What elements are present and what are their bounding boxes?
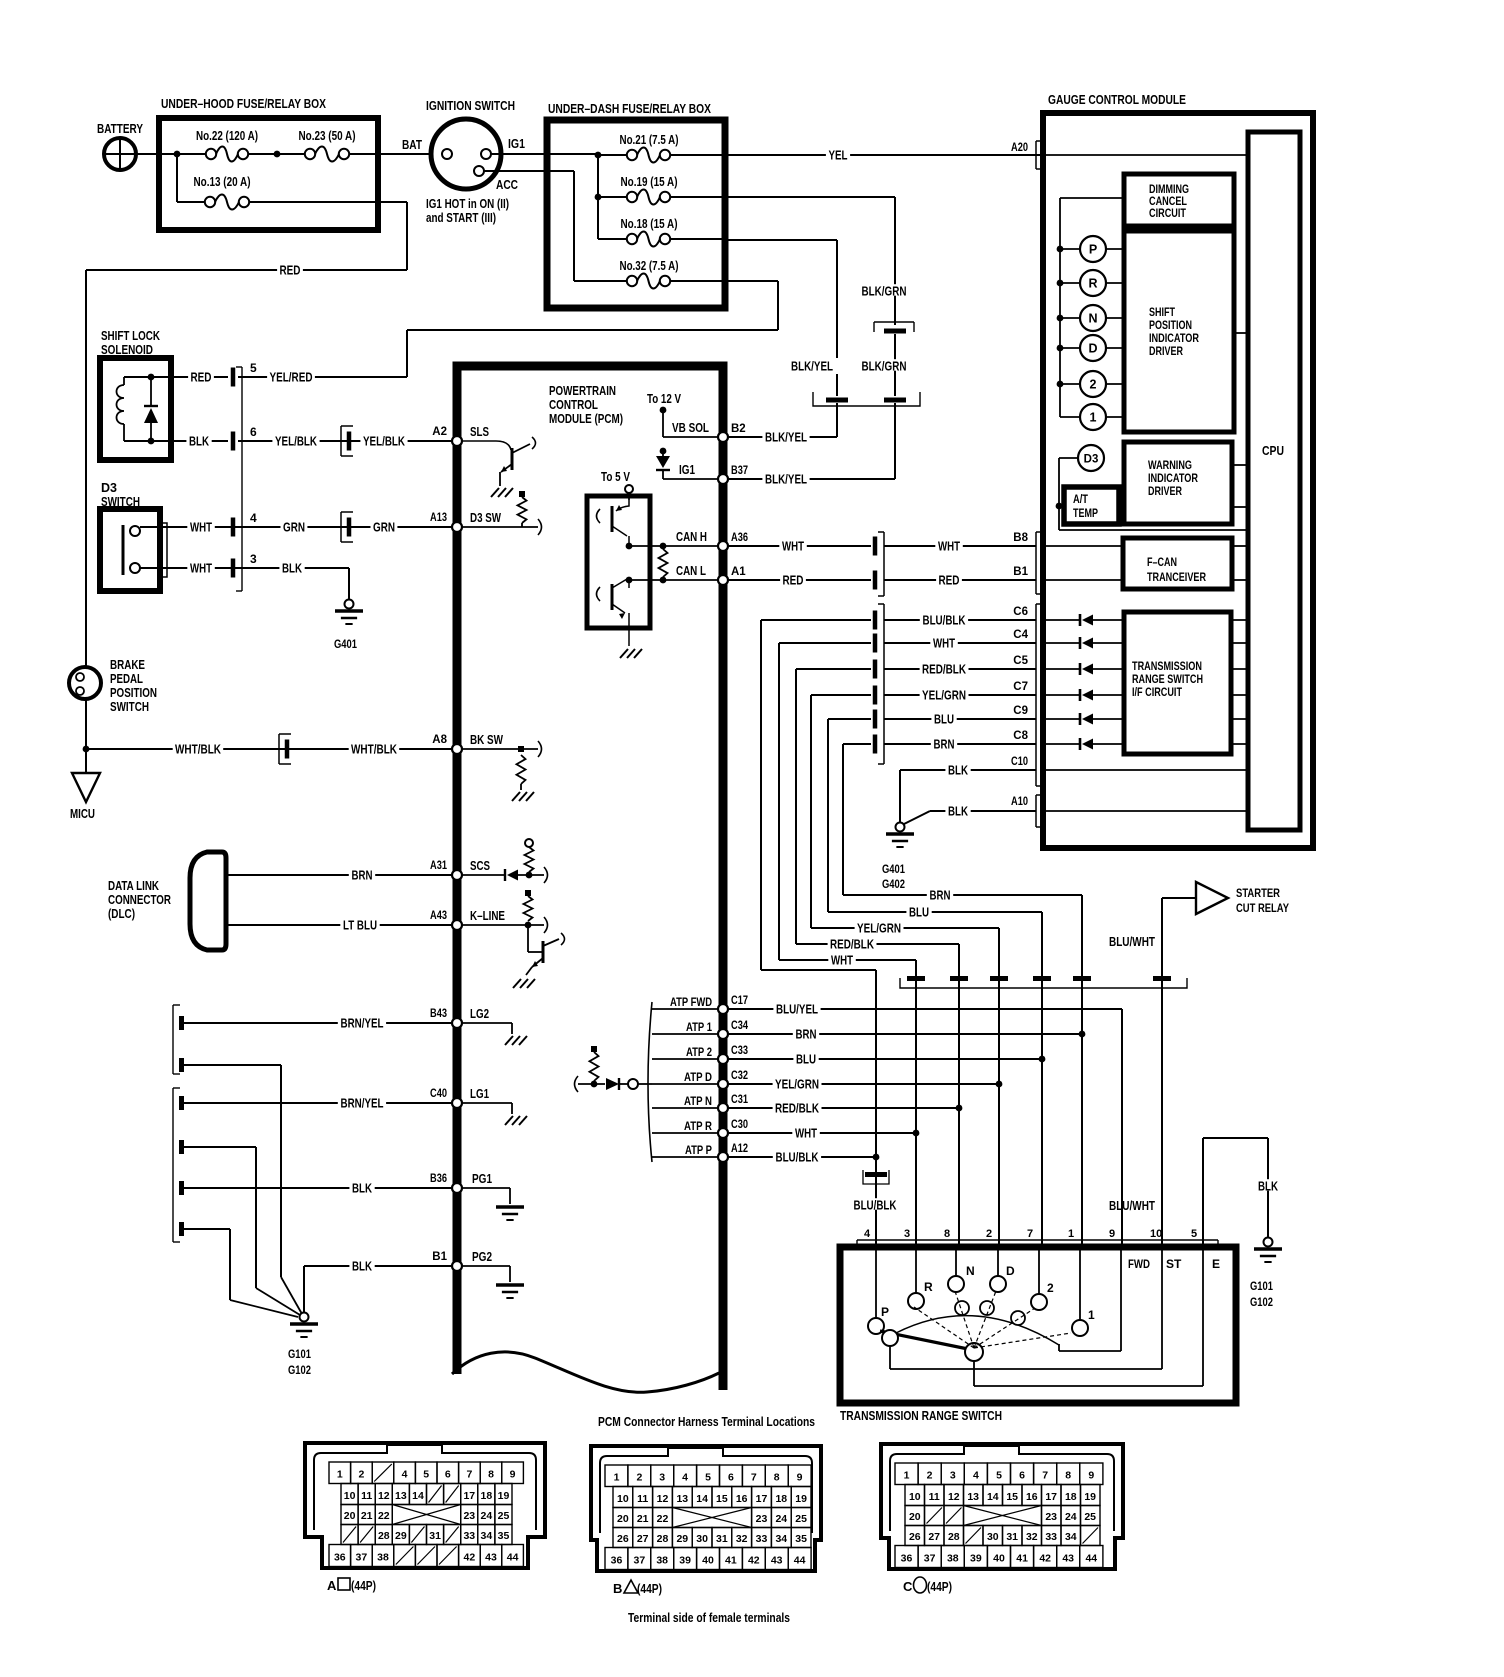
pin B43 (430, 1008, 462, 1028)
pin C40 (430, 1088, 462, 1108)
svg-text:(DLC): (DLC) (108, 907, 135, 921)
wire RED/BLK C5 (796, 655, 1036, 944)
svg-text:B1: B1 (432, 1251, 447, 1263)
svg-text:A13: A13 (430, 512, 447, 524)
svg-text:25: 25 (795, 1513, 807, 1525)
svg-text:CIRCUIT: CIRCUIT (1149, 208, 1186, 220)
svg-text:WHT: WHT (190, 520, 212, 534)
svg-text:42: 42 (1039, 1553, 1051, 1565)
svg-text:LG2: LG2 (470, 1007, 489, 1021)
wire A10 to CPU (1043, 810, 1248, 812)
svg-text:22: 22 (657, 1513, 669, 1525)
svg-text:ACC: ACC (496, 177, 518, 192)
wire BLU/YEL C17 to pin 9 (728, 1002, 1122, 1247)
svg-text:BLK: BLK (948, 804, 968, 818)
starter cut relay (1196, 882, 1289, 915)
svg-text:BLU/WHT: BLU/WHT (1109, 935, 1155, 949)
range switch contact D (990, 1247, 1015, 1292)
svg-text:A31: A31 (430, 860, 447, 872)
node To 12 V (647, 392, 682, 437)
svg-text:BRAKE: BRAKE (110, 658, 145, 672)
svg-text:STARTER: STARTER (1236, 886, 1280, 900)
D3 switch (100, 481, 160, 591)
range switch wiper arc (896, 1301, 1059, 1345)
indicator lamp R (1057, 270, 1124, 296)
svg-text:2: 2 (1090, 378, 1097, 392)
svg-text:11: 11 (929, 1491, 940, 1503)
pin B36 (430, 1173, 462, 1193)
diode on C7 line (1043, 689, 1124, 701)
svg-text:RED/BLK: RED/BLK (922, 662, 966, 676)
svg-text:D3: D3 (1084, 454, 1099, 466)
diode on C5 line (1043, 663, 1124, 675)
svg-text:43: 43 (771, 1555, 783, 1567)
svg-text:1: 1 (1068, 1228, 1074, 1240)
svg-text:1: 1 (904, 1470, 910, 1482)
svg-text:No.18 (15 A): No.18 (15 A) (621, 217, 678, 231)
pin C33 (718, 1045, 748, 1064)
svg-text:12: 12 (948, 1491, 960, 1503)
range switch contact R (908, 1247, 933, 1309)
svg-text:YEL: YEL (829, 148, 848, 162)
F-CAN tranceiver (1123, 538, 1248, 589)
connector bracket A20 (1036, 141, 1043, 169)
wire BRN/YEL to B43 (184, 1016, 452, 1030)
ground G401 (left) (334, 600, 363, 652)
svg-text:2: 2 (927, 1470, 933, 1482)
svg-text:D: D (1088, 342, 1097, 356)
warning indicator driver (1124, 442, 1248, 524)
svg-text:F–CAN: F–CAN (1147, 557, 1177, 569)
svg-text:CAN L: CAN L (676, 564, 706, 578)
svg-text:R: R (924, 1280, 933, 1294)
connector view A (44P) (305, 1443, 545, 1593)
svg-text:10: 10 (909, 1491, 921, 1503)
svg-text:ATP 2: ATP 2 (686, 1045, 712, 1059)
svg-text:ATP 1: ATP 1 (686, 1020, 712, 1034)
svg-text:MICU: MICU (70, 807, 95, 821)
svg-text:3: 3 (904, 1228, 910, 1240)
svg-text:(44P): (44P) (927, 1579, 952, 1594)
pin C31 (718, 1094, 748, 1113)
svg-text:ATP D: ATP D (684, 1070, 712, 1084)
pin 2 label (986, 1228, 992, 1240)
connector bracket pins 5/6/4/3 (236, 367, 242, 591)
svg-text:10: 10 (344, 1490, 356, 1502)
svg-text:WHT: WHT (938, 539, 960, 553)
svg-text:ATP R: ATP R (684, 1119, 712, 1133)
wire column pin3 WHT (913, 960, 920, 1247)
svg-text:No.19 (15 A): No.19 (15 A) (621, 175, 678, 189)
pin 5 label (1191, 1228, 1197, 1240)
svg-text:BRN/YEL: BRN/YEL (341, 1096, 384, 1110)
transistor Q3 (CAN L) (597, 579, 643, 658)
svg-text:38: 38 (947, 1553, 959, 1565)
svg-text:12: 12 (657, 1493, 669, 1505)
resistor R2 (CAN termination) (659, 549, 668, 577)
svg-text:WHT/BLK: WHT/BLK (175, 742, 221, 756)
svg-text:CUT RELAY: CUT RELAY (1236, 901, 1289, 915)
svg-text:WHT/BLK: WHT/BLK (351, 742, 397, 756)
svg-text:BLU/BLK: BLU/BLK (776, 1150, 819, 1164)
svg-text:14: 14 (696, 1493, 708, 1505)
svg-text:15: 15 (1006, 1491, 1018, 1503)
svg-text:16: 16 (1026, 1491, 1038, 1503)
wire ATP R (652, 1119, 718, 1133)
wire RED (to brake pedal switch) (86, 263, 407, 667)
svg-text:A1: A1 (731, 566, 746, 578)
svg-text:N: N (966, 1264, 975, 1278)
indicator lamp 2 (1057, 371, 1124, 397)
svg-text:38: 38 (656, 1555, 668, 1567)
wire BRN C34 (728, 1027, 1082, 1041)
diode on C6 line (1043, 614, 1124, 626)
wire CAN H WHT (728, 532, 1036, 553)
connector bracket (lower left group) (173, 1088, 184, 1242)
svg-text:19: 19 (795, 1493, 807, 1505)
svg-text:31: 31 (429, 1530, 441, 1542)
svg-text:N: N (1088, 312, 1097, 326)
pin A2 (432, 426, 462, 446)
indicator lamp N (1057, 305, 1124, 331)
wire I/F to CPU at C7 (1231, 694, 1248, 696)
wire B8 to F-CAN (1043, 545, 1123, 547)
svg-text:33: 33 (1045, 1531, 1057, 1543)
svg-text:25: 25 (1084, 1511, 1096, 1523)
ground G401/G402 (gauge) (882, 823, 914, 892)
svg-text:BATTERY: BATTERY (97, 122, 144, 136)
svg-text:7: 7 (751, 1472, 757, 1484)
wire WHT/BLK to A8 (86, 734, 452, 764)
svg-text:RANGE SWITCH: RANGE SWITCH (1132, 674, 1203, 686)
svg-text:RED/BLK: RED/BLK (830, 937, 874, 951)
svg-text:BLK/GRN: BLK/GRN (862, 284, 907, 298)
svg-text:2: 2 (636, 1472, 642, 1484)
fuse No.32 (7.5 A) (620, 259, 726, 289)
wire BLK C10 to ground G401 (900, 756, 1036, 822)
svg-text:WHT: WHT (782, 539, 804, 553)
wire LG2 to ground (462, 1007, 527, 1045)
wire A20 to CPU (1043, 154, 1248, 156)
connector in range switch sense wires (873, 604, 884, 764)
svg-text:3: 3 (250, 552, 257, 566)
svg-text:31: 31 (716, 1533, 728, 1545)
svg-text:IG1: IG1 (679, 463, 695, 477)
svg-text:24: 24 (481, 1510, 493, 1522)
svg-text:18: 18 (775, 1493, 787, 1505)
wire battery to under-hood fuse box (136, 153, 162, 155)
wire PG1 to ground (462, 1172, 524, 1220)
svg-text:YEL/GRN: YEL/GRN (857, 921, 901, 935)
pin 9 label (1109, 1228, 1115, 1240)
svg-text:R: R (1088, 277, 1097, 291)
svg-text:C5: C5 (1013, 655, 1028, 667)
wire YEL/GRN C32 (728, 1077, 999, 1091)
svg-text:2: 2 (986, 1228, 992, 1240)
wire IG1 to under-dash box (491, 153, 598, 155)
resistor R4 (SCS pull-up) (525, 839, 534, 872)
wire IG1 (663, 463, 718, 479)
svg-text:BLU: BLU (909, 905, 929, 919)
svg-text:C17: C17 (731, 995, 748, 1007)
svg-text:TRANSMISSION RANGE SWITCH: TRANSMISSION RANGE SWITCH (840, 1408, 1002, 1423)
wire RED/BLK to range switch column (796, 937, 959, 951)
svg-text:8: 8 (774, 1472, 780, 1484)
wire PG2 to ground (462, 1250, 524, 1298)
transistor Q2 (CAN H) (597, 500, 630, 546)
svg-text:37: 37 (356, 1552, 368, 1564)
svg-text:PG1: PG1 (472, 1172, 492, 1186)
svg-text:GRN: GRN (373, 520, 395, 534)
svg-text:37: 37 (924, 1553, 936, 1565)
svg-text:21: 21 (361, 1510, 373, 1522)
wire ATP D (652, 1070, 718, 1084)
pin A36 (718, 532, 748, 551)
svg-text:BLK: BLK (282, 561, 302, 575)
svg-text:No.22 (120 A): No.22 (120 A) (196, 129, 258, 143)
svg-text:BRN: BRN (796, 1027, 817, 1041)
dimming cancel circuit (1124, 174, 1234, 226)
svg-text:BLK/YEL: BLK/YEL (765, 472, 807, 486)
wire BLK/YEL fuse18 down (725, 240, 837, 396)
svg-text:C31: C31 (731, 1094, 748, 1106)
svg-text:ST: ST (1166, 1257, 1182, 1271)
svg-text:SWITCH: SWITCH (110, 700, 149, 714)
wire BLK solenoid pin 6 (124, 434, 228, 448)
svg-text:No.21 (7.5 A): No.21 (7.5 A) (620, 133, 679, 147)
svg-text:8: 8 (1065, 1470, 1071, 1482)
svg-text:BLU/BLK: BLU/BLK (854, 1198, 897, 1212)
wire D3 SW (462, 511, 542, 535)
svg-text:33: 33 (756, 1533, 768, 1545)
svg-text:C10: C10 (1011, 756, 1028, 768)
op-amp U1 CAN transceiver box (587, 496, 650, 628)
svg-text:C33: C33 (731, 1045, 748, 1057)
pin 4 (231, 511, 257, 537)
connector bracket A10 (1036, 795, 1043, 827)
svg-text:20: 20 (617, 1513, 629, 1525)
pin 8 label (944, 1228, 950, 1240)
pin C34 (718, 1020, 748, 1039)
transmission range switch I/F circuit (1124, 612, 1231, 754)
wire YEL/RED (238, 370, 407, 384)
svg-text:A: A (327, 1578, 337, 1593)
svg-text:D: D (1006, 1264, 1015, 1278)
pin A13 (430, 512, 462, 532)
wire WHT/GRN to A13 (140, 512, 452, 542)
wire VB SOL (663, 421, 718, 437)
wire BLU/BLK jog to range switch column (761, 969, 876, 971)
svg-text:YEL/GRN: YEL/GRN (775, 1077, 819, 1091)
svg-text:3: 3 (950, 1470, 956, 1482)
wire ST (890, 1247, 1182, 1369)
shift lock solenoid (100, 329, 171, 460)
svg-text:G101: G101 (1250, 1279, 1273, 1293)
svg-text:YEL/GRN: YEL/GRN (922, 688, 966, 702)
svg-text:GAUGE CONTROL MODULE: GAUGE CONTROL MODULE (1048, 92, 1186, 107)
svg-text:A36: A36 (731, 532, 748, 544)
wire column pin2 YEL/GRN (996, 928, 1003, 1247)
connector in CAN wires (873, 532, 884, 596)
wire YEL/GRN C7 (811, 681, 1036, 928)
svg-text:K–LINE: K–LINE (470, 909, 505, 923)
svg-text:29: 29 (676, 1533, 688, 1545)
pin B2 (718, 423, 746, 442)
svg-text:A12: A12 (731, 1143, 748, 1155)
range switch contact P (868, 1247, 889, 1334)
svg-text:28: 28 (378, 1530, 390, 1542)
fuse No.21 (7.5 A) (595, 133, 725, 163)
svg-text:TRANCEIVER: TRANCEIVER (1147, 572, 1207, 584)
svg-text:BRN/YEL: BRN/YEL (341, 1016, 384, 1030)
brake pedal position switch (69, 658, 157, 714)
svg-text:4: 4 (250, 511, 257, 525)
wire ATP 2 (652, 1045, 718, 1059)
svg-text:B1: B1 (1013, 566, 1028, 578)
wire BLK to B1 PG2 (304, 1259, 452, 1312)
svg-text:34: 34 (481, 1530, 493, 1542)
D3 switch contacts (123, 523, 167, 577)
pin 1 label (1068, 1228, 1074, 1240)
wire column pin8 RED/BLK (956, 944, 963, 1247)
range switch dashed wipers (914, 1291, 1071, 1348)
connector bracket B8/B1 (1036, 532, 1043, 594)
pin C17 (718, 995, 748, 1014)
svg-text:18: 18 (481, 1490, 493, 1502)
svg-text:CONTROL: CONTROL (549, 398, 598, 412)
pin 5 (231, 361, 257, 387)
svg-text:No.13 (20 A): No.13 (20 A) (194, 175, 251, 189)
pin A43 (430, 910, 462, 930)
ignition switch (426, 98, 525, 225)
svg-text:24: 24 (775, 1513, 787, 1525)
wire SCS (462, 859, 504, 875)
pin 6 (231, 425, 257, 451)
connector view B (44P) (591, 1446, 821, 1596)
pin C30 (718, 1119, 748, 1138)
svg-text:SHIFT: SHIFT (1149, 307, 1175, 319)
caption PCM connector harness terminal locations (598, 1414, 815, 1429)
svg-text:No.23 (50 A): No.23 (50 A) (299, 129, 356, 143)
svg-text:To 5 V: To 5 V (601, 470, 631, 484)
pin 4 label (864, 1228, 871, 1240)
svg-text:LG1: LG1 (470, 1087, 489, 1101)
svg-text:(44P): (44P) (351, 1578, 376, 1593)
wire BLU C33 (728, 1052, 1042, 1066)
svg-text:INDICATOR: INDICATOR (1148, 473, 1199, 485)
svg-text:UNDER–DASH FUSE/RELAY BOX: UNDER–DASH FUSE/RELAY BOX (548, 101, 711, 116)
svg-text:13: 13 (676, 1493, 688, 1505)
node fuse22-fuse23 junction (248, 151, 305, 158)
svg-text:D3: D3 (101, 481, 117, 495)
svg-text:42: 42 (464, 1552, 476, 1564)
svg-text:(44P): (44P) (637, 1581, 662, 1596)
svg-text:BRN: BRN (352, 868, 373, 882)
svg-text:4: 4 (973, 1470, 979, 1482)
svg-text:12: 12 (378, 1490, 390, 1502)
svg-text:B8: B8 (1013, 532, 1028, 544)
svg-text:FWD: FWD (1128, 1257, 1150, 1271)
svg-text:DRIVER: DRIVER (1149, 346, 1184, 358)
wire column pin4 BLU/BLK (851, 970, 899, 1247)
wire BAT to ignition switch (349, 137, 431, 154)
indicator lamp D3 (1056, 445, 1248, 530)
svg-text:14: 14 (412, 1490, 424, 1502)
fuse No.13 (20 A) (177, 154, 251, 210)
battery (97, 122, 144, 170)
svg-text:BLK: BLK (352, 1181, 372, 1195)
svg-text:28: 28 (657, 1533, 669, 1545)
svg-text:RED: RED (783, 573, 804, 587)
svg-text:13: 13 (395, 1490, 407, 1502)
svg-text:B36: B36 (430, 1173, 447, 1185)
svg-text:P: P (881, 1305, 889, 1319)
svg-text:44: 44 (794, 1555, 806, 1567)
svg-text:Terminal side of female termin: Terminal side of female terminals (628, 1610, 790, 1625)
diode D2 (SCS) (505, 867, 548, 883)
pin A8 (432, 734, 462, 754)
wire CAN L RED (728, 566, 1036, 587)
svg-text:42: 42 (748, 1555, 760, 1567)
wire brake switch to MICU (83, 699, 90, 773)
fuse No.23 (50 A) (299, 129, 356, 162)
svg-text:14: 14 (987, 1491, 999, 1503)
diode D4 (solenoid flyback) (144, 374, 158, 445)
wire WHT/BLK to ground G401 (140, 561, 349, 600)
svg-text:5: 5 (250, 361, 257, 375)
resistor R1 (D3 SW pull-up) (518, 491, 527, 527)
svg-text:G102: G102 (288, 1363, 311, 1377)
pin 3 label (904, 1228, 910, 1240)
wire BLU C9 (828, 705, 1036, 912)
svg-text:37: 37 (634, 1555, 646, 1567)
svg-text:21: 21 (637, 1513, 649, 1525)
svg-text:B2: B2 (731, 423, 746, 435)
svg-text:CPU: CPU (1262, 443, 1284, 458)
svg-text:PCM Connector Harness Terminal: PCM Connector Harness Terminal Locations (598, 1414, 815, 1429)
svg-text:7: 7 (1042, 1470, 1048, 1482)
svg-text:UNDER–HOOD FUSE/RELAY BOX: UNDER–HOOD FUSE/RELAY BOX (161, 96, 326, 111)
svg-text:PG2: PG2 (472, 1250, 492, 1264)
solenoid coil L1 (117, 377, 125, 441)
wire BLK A10 to ground G401 (904, 796, 1036, 824)
svg-text:24: 24 (1065, 1511, 1077, 1523)
svg-text:13: 13 (967, 1491, 979, 1503)
connector row above range switch (900, 976, 1187, 988)
wire I/F to CPU at C9 (1231, 718, 1248, 720)
svg-text:34: 34 (1065, 1531, 1077, 1543)
svg-text:33: 33 (463, 1530, 475, 1542)
wire I/F to CPU at C4 (1231, 642, 1248, 644)
pin 3 (231, 552, 257, 578)
svg-text:D3 SW: D3 SW (470, 511, 501, 525)
svg-text:32: 32 (1026, 1531, 1038, 1543)
wire ACC to fuse No.32 (484, 171, 626, 281)
svg-text:8: 8 (488, 1469, 494, 1481)
svg-text:30: 30 (987, 1531, 999, 1543)
wire to B2 pin (728, 403, 837, 444)
svg-text:9: 9 (1088, 1470, 1094, 1482)
wire BLU/BLK A12 (728, 1150, 876, 1164)
svg-text:5: 5 (1191, 1228, 1197, 1240)
svg-text:BK SW: BK SW (470, 733, 503, 747)
svg-text:BLU/BLK: BLU/BLK (923, 613, 966, 627)
pin 7 label (1027, 1228, 1033, 1240)
CPU box (1248, 132, 1300, 830)
svg-text:SHIFT LOCK: SHIFT LOCK (101, 329, 160, 343)
svg-text:31: 31 (1006, 1531, 1018, 1543)
svg-text:18: 18 (1065, 1491, 1077, 1503)
